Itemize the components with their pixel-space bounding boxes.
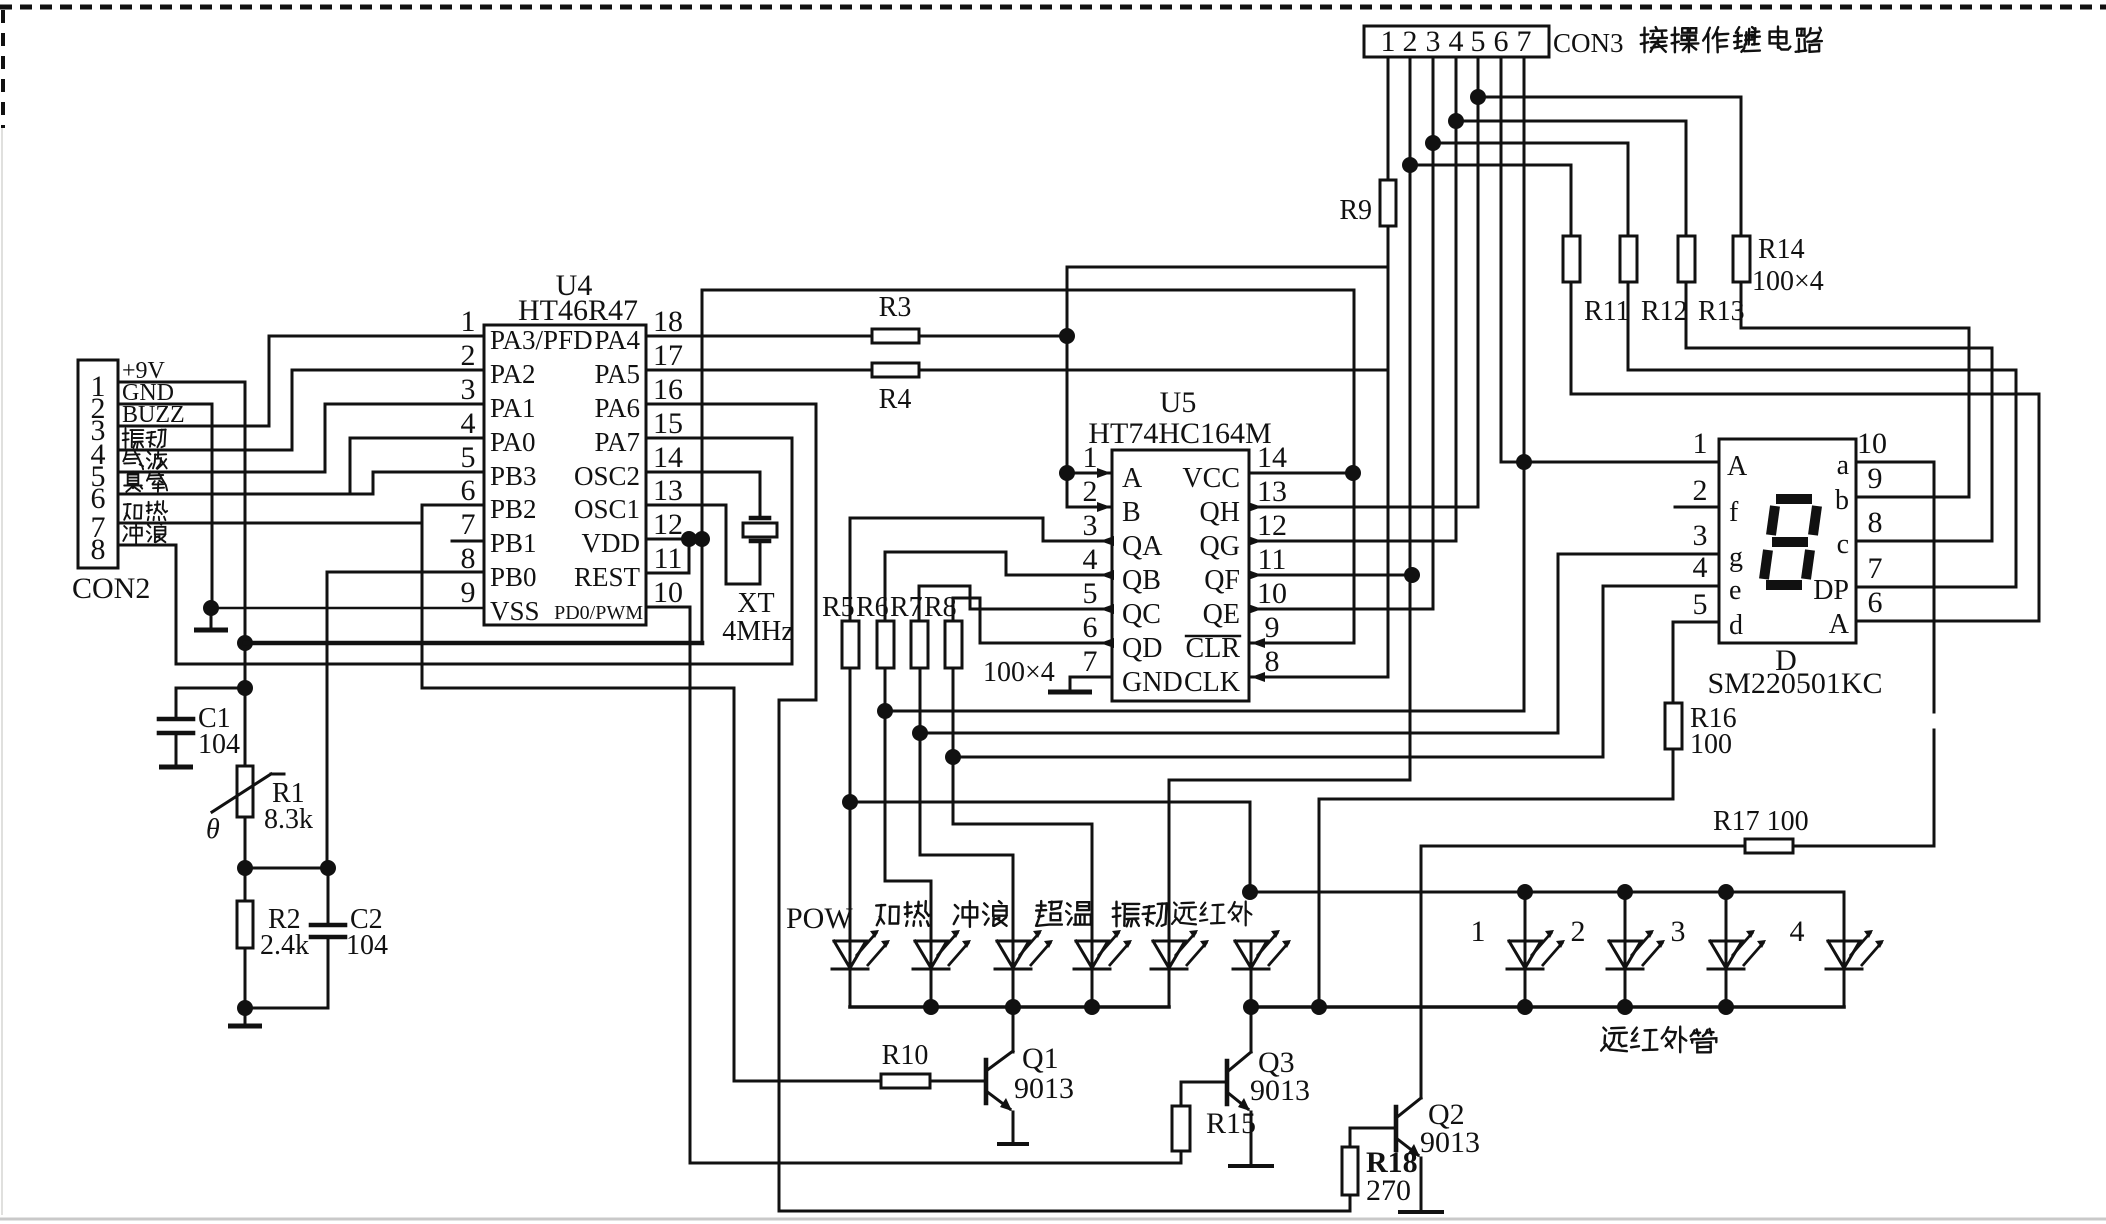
cathode bus of status LEDs [850,1005,1169,1009]
svg-text:3: 3 [1671,915,1686,948]
junction +9V/C1 [237,680,253,696]
wire 气波 to U4 PA1 [118,404,484,472]
svg-text:8.3k: 8.3k [264,804,313,835]
svg-text:QH: QH [1200,497,1240,528]
svg-text:14: 14 [653,441,683,474]
IR LED 3 cathode lead [1725,969,1728,1007]
svg-text:θ: θ [206,814,220,845]
ground symbol GND node [210,608,213,628]
resistor R9 [1380,180,1396,226]
wire 振动 LED cathode lead [1168,969,1171,1007]
wire U5 CLK from CON3-1 column [1249,676,1388,679]
wire 冲浪 LED cathode lead [1012,969,1015,1007]
junction R3 / A-B column [1059,328,1075,344]
wire display d to R16 [1673,622,1719,703]
svg-text:VSS: VSS [490,596,540,626]
svg-text:8: 8 [1265,645,1280,678]
svg-text:PA2: PA2 [490,359,536,389]
wire U5 QD to R8 [953,598,1112,643]
IR LED 1 anode lead [1524,892,1527,941]
IR LED 3 [1710,941,1742,968]
wire display e from shift line [953,586,1719,757]
wire U5 GND pin7 [1070,677,1112,690]
wire U5 pin1 A [1067,472,1112,475]
svg-text:1: 1 [461,305,476,338]
LED 加热 [915,941,947,968]
svg-text:CLK: CLK [1184,667,1240,698]
arrow out of U5 QB [1100,570,1114,580]
LED 远红外 [1235,941,1267,968]
wire R16 to cathode bus [1319,749,1673,1007]
arrow out of U5 QC [1100,604,1114,614]
IC U5 HT74HC164M body [1112,450,1249,701]
U5 CLR overline [1186,635,1240,637]
svg-text:10: 10 [653,576,683,609]
svg-text:1: 1 [1471,915,1486,948]
svg-text:17: 17 [653,339,683,372]
svg-text:QA: QA [1122,531,1163,562]
wire U4 REST pin11 tie to VDD [646,539,689,573]
svg-text:PD0/PWM: PD0/PWM [554,602,643,624]
svg-text:16: 16 [653,373,683,406]
IR LED 3 anode lead [1725,892,1728,941]
svg-text:2: 2 [1403,25,1418,58]
wire CON3-5 branch to R14 [1478,97,1741,236]
LED 振动 [1153,941,1185,968]
wire R8 column to 超温 LED [953,668,1092,941]
arrow out of U5 QA [1100,536,1114,546]
wire U4 OSC2 to crystal [646,472,760,518]
display pin2 f stub [1675,506,1719,509]
wire anode feed to IR rail [850,802,1250,892]
resistor R5 [842,621,859,668]
arrow into U5 CLR [1251,638,1265,648]
wire CON3-4 branch to R13 [1456,121,1686,236]
wire U5 CLR pin9 to supply column [1249,642,1354,645]
svg-text:4MHz: 4MHz [722,616,794,647]
wire CON3 pin1 through R9 down to CLK [1387,57,1390,180]
junction cathode rail / R16 return [1311,999,1327,1015]
svg-text:PA0: PA0 [490,427,536,457]
junction rail/远红外 anode [1242,884,1258,900]
svg-text:6: 6 [1083,611,1098,644]
svg-text:8: 8 [461,542,476,575]
wire 加热 LED cathode lead [930,969,933,1007]
svg-text:PA4: PA4 [594,325,640,355]
svg-text:10: 10 [1857,427,1887,460]
junction CON3-6/7 tie [1516,454,1532,470]
ground symbol C1 [159,765,193,770]
resistor R12 [1620,236,1637,282]
svg-text:QB: QB [1122,565,1161,596]
wire display g from shift line [920,554,1719,733]
junction IR rail 3 [1718,884,1734,900]
svg-text:CON3: CON3 [1553,28,1624,58]
junction CON3-4 / R13 [1448,113,1464,129]
wire R10 line from PB2 column [734,1080,881,1083]
svg-text:HT46R47: HT46R47 [518,294,638,327]
svg-text:9: 9 [1868,462,1883,495]
resistor R6 [877,621,894,668]
wire CON3 pin4 column [1455,57,1458,121]
wire Q2 emitter to ground [1420,1158,1423,1211]
svg-text:U5: U5 [1160,386,1197,419]
wire display a down to R17 [1856,462,1934,712]
wire R4 to CON3-1/CLK column [919,369,1388,372]
svg-text:PB3: PB3 [490,461,537,491]
wire R15 to Q3 base [1181,1081,1227,1084]
wire Q1 collector to bus [1012,1007,1015,1052]
CON2 signal label 冲浪 [123,523,142,543]
junction IR cathode rail 2 [1617,999,1633,1015]
junction 远红外 cathode/Q3 [1243,999,1259,1015]
wire U4 PA4 to R3 [646,335,872,338]
wire CON3 pin3 column [1432,57,1435,143]
wire 冲浪 to PA7 long line [118,438,792,664]
svg-text:12: 12 [1257,509,1287,542]
wire 臭氧 line [118,472,484,494]
arrow out of U5 QD [1100,638,1114,648]
svg-text:PB1: PB1 [490,528,537,558]
svg-text:11: 11 [654,542,683,575]
7-segment display D body [1719,439,1856,643]
display digit segments [1776,494,1812,504]
svg-text:5: 5 [1693,588,1708,621]
svg-text:9013: 9013 [1250,1074,1310,1107]
wire R3 to U5 A/B column [919,335,1067,338]
svg-text:104: 104 [346,930,388,961]
wire U4 PA6 to R18/Q2 base net [646,404,1350,1211]
wire R11 to display pin6 [1571,282,2039,621]
arrow into U5 A [1097,468,1111,478]
junction R5 column / IR feed line [842,794,858,810]
svg-text:100×4: 100×4 [1752,266,1824,297]
resistor R7 [911,621,928,668]
LED 冲浪 [997,941,1029,968]
junction VDD column [694,531,710,547]
resistor R10 [881,1074,930,1088]
svg-text:PA5: PA5 [594,359,640,389]
transistor Q2 [1394,1107,1399,1150]
svg-text:6: 6 [1868,586,1883,619]
wire 加热 line [118,522,422,525]
svg-text:R8: R8 [924,592,957,623]
svg-text:R3: R3 [879,292,912,323]
svg-text:b: b [1835,485,1849,516]
page top dashed border [0,5,2106,10]
svg-text:e: e [1729,575,1741,606]
svg-text:g: g [1729,542,1743,573]
svg-text:8: 8 [1868,506,1883,539]
svg-text:4: 4 [1449,25,1464,58]
svg-text:5: 5 [461,441,476,474]
svg-text:CON2: CON2 [72,572,150,605]
svg-text:1: 1 [1083,441,1098,474]
connector CON3 body [1364,26,1549,57]
svg-text:2: 2 [1571,915,1586,948]
wire U5 QF to CON3-2 column [1249,574,1412,577]
wire VDD rail to +9V [245,641,702,646]
svg-text:104: 104 [198,729,240,760]
wire Q3 emitter to ground [1250,1112,1253,1164]
resistor R18 [1342,1147,1358,1195]
wire R2 to ground [244,948,247,1008]
svg-text:9: 9 [1265,611,1280,644]
svg-text:5: 5 [1083,577,1098,610]
wire R14 to display pin b [1741,282,1969,497]
label 远红外 [1172,903,1196,925]
svg-text:SM220501KC: SM220501KC [1707,667,1882,700]
svg-text:3: 3 [461,373,476,406]
svg-text:R13: R13 [1698,296,1745,327]
svg-text:9: 9 [461,576,476,609]
arrow out of U5 QF [1248,570,1262,580]
svg-text:18: 18 [653,305,683,338]
resistor R15 [1180,1082,1183,1106]
svg-text:4: 4 [1693,551,1708,584]
junction REST/VDD [681,531,697,547]
wire U5 QA to R5 [850,518,1112,621]
svg-text:R7: R7 [890,592,923,623]
label 振动 [1113,902,1139,927]
svg-text:11: 11 [1258,543,1287,576]
wire U4 VDD pin12 [646,538,702,541]
wire R18 to Q2 base [1350,1128,1396,1147]
svg-text:100×4: 100×4 [983,657,1055,688]
svg-text:QD: QD [1122,633,1162,664]
IR LED 2 [1609,941,1641,968]
resistor R13 [1678,236,1695,282]
wire R7 column to 冲浪 LED [920,668,1013,941]
wire Q2 collector up to R17 [1420,846,1423,1098]
junction bus/超温 [1084,999,1100,1015]
svg-text:R6: R6 [856,592,889,623]
svg-text:3: 3 [1693,519,1708,552]
junction CON3-3 / R12 [1425,135,1441,151]
wire CON3 pin2 column [1169,57,1410,941]
resistor R2 [237,901,253,948]
LED POW [834,941,866,968]
wire U4 OSC1 to crystal [646,505,760,584]
svg-text:DP: DP [1813,575,1849,606]
svg-text:15: 15 [653,407,683,440]
svg-text:PA1: PA1 [490,393,536,423]
ground symbol U5 GND [1048,690,1092,695]
svg-text:PA3/PFD: PA3/PFD [490,325,593,355]
junction g line / R7 column [912,725,928,741]
svg-text:CLR: CLR [1186,633,1241,664]
IR LED 2 anode lead [1624,892,1627,941]
svg-text:14: 14 [1257,441,1287,474]
wire U5 VCC pin14 [1249,472,1354,475]
svg-text:6: 6 [1494,25,1509,58]
junction CON3-2 / R11 [1402,157,1418,173]
junction QF / CON3-2 column [1404,567,1420,583]
wire 振动 to U4 PA2 [118,370,484,450]
wire POW LED cathode lead [849,969,852,1007]
wire VSS to U4 pin9 [211,607,484,610]
svg-text:PB2: PB2 [490,494,537,524]
junction IR cathode rail 3 [1718,999,1734,1015]
svg-text:A: A [1122,463,1143,494]
junction +9V/VDD rail [237,635,253,651]
svg-text:d: d [1729,610,1743,641]
arrow into U5 B [1097,502,1111,512]
junction IR cathode rail 1 [1517,999,1533,1015]
ground symbol Q2 [1398,1210,1444,1214]
junction bus/冲浪/Q1 [1005,999,1021,1015]
svg-text:R10: R10 [882,1040,929,1071]
svg-text:2: 2 [1693,474,1708,507]
svg-text:9013: 9013 [1014,1072,1074,1105]
svg-text:7: 7 [461,508,476,541]
svg-text:PA7: PA7 [594,427,640,457]
wire R6 column to 加热 LED [885,668,931,941]
svg-text:7: 7 [1083,645,1098,678]
svg-text:PB0: PB0 [490,562,537,592]
svg-text:R11: R11 [1584,296,1630,327]
svg-text:3: 3 [1083,509,1098,542]
svg-text:100: 100 [1690,729,1732,760]
wire U5 QG to CON3-4 column [1249,57,1456,541]
svg-text:a: a [1837,450,1850,481]
wire CON3 pin5 column [1477,57,1480,97]
svg-text:A: A [1829,609,1850,640]
svg-text:4: 4 [1790,915,1805,948]
svg-text:13: 13 [1257,475,1287,508]
junction divider/R2 [237,860,253,876]
label 超温 [1036,901,1062,926]
wire CON3 pin6 to display common A [1501,57,1719,462]
svg-text:QE: QE [1203,599,1240,630]
svg-text:5: 5 [1471,25,1486,58]
junction GND node [203,600,219,616]
wire R5 column to POW LED anode [849,668,852,941]
IR anode rail [1250,891,1844,894]
junction e line / R8 column [945,749,961,765]
wire CON3-1 key line to U5 A/B [1067,267,1388,507]
IC U4 HT46R47 body [484,325,646,625]
IR LED 1 [1509,941,1541,968]
svg-text:1: 1 [1381,25,1396,58]
svg-text:R15: R15 [1206,1107,1256,1140]
svg-text:270: 270 [1366,1174,1411,1207]
wire divider to C2 [245,867,328,870]
label 远红外管 [1601,1028,1627,1052]
wire U4 PB2 column down to Q1 base net [422,505,734,1081]
thermistor R1 [237,766,253,817]
wire GND from CON2 pin2 [118,404,212,608]
svg-text:6: 6 [461,474,476,507]
CON2 signal label 臭氧 [124,471,142,491]
CON2 signal label 气波 [123,450,143,469]
svg-text:8: 8 [91,533,106,566]
wire U5 QB to R6 [885,552,1112,621]
resistor R16 [1665,703,1682,749]
svg-text:R12: R12 [1641,296,1688,327]
wire U4 PB0 to thermistor divider [327,572,484,868]
junction bus/加热 [923,999,939,1015]
svg-text:2: 2 [461,339,476,372]
wire R12 to display DP [1628,282,2016,587]
wire BUZZ to U4 PA3/PFD [118,336,484,426]
junction IR rail 1 [1517,884,1533,900]
junction R2/C2 ground [237,1000,253,1016]
junction divider/C2 [320,860,336,876]
wire 远红外 cathode to Q3 collector [1250,969,1253,1052]
label 冲浪 [954,901,978,927]
page left faint rule [1,128,3,1215]
transistor Q3 [1225,1061,1230,1104]
stub U4 PB1 n.c. [452,540,484,543]
svg-text:OSC1: OSC1 [574,494,640,524]
wire Q1 emitter to ground [1012,1112,1015,1142]
svg-text:R17 100: R17 100 [1713,806,1809,837]
wire Q2 collector to R17 [1421,845,1745,848]
wire U5 QC to R7 [919,586,1112,621]
svg-text:2.4k: 2.4k [260,930,309,961]
IR LED 2 cathode lead [1624,969,1627,1007]
arrow out of U5 QH [1248,502,1262,512]
svg-text:A: A [1727,451,1748,482]
svg-text:R4: R4 [879,384,912,415]
wire CON3 pin7 column to key return line [885,57,1524,711]
wire R13 to display pin c [1686,282,1992,541]
svg-text:7: 7 [1868,552,1883,585]
svg-text:QF: QF [1204,565,1240,596]
IR LED 4 cathode lead [1843,969,1846,1007]
transistor Q1 [984,1060,989,1103]
svg-text:B: B [1122,497,1141,528]
IR LED 4 anode lead [1843,892,1846,941]
svg-text:XT: XT [737,588,774,619]
resistor R14 [1733,236,1750,282]
cathode rail of IR bank [1251,1005,1844,1009]
wire 超温 LED cathode lead [1091,969,1094,1007]
arrow out of U5 QG [1248,536,1262,546]
wire R1 to divider node [244,817,247,901]
wire +9V from CON2 pin1 [118,382,245,766]
wire CON3-2 branch to R11 [1410,165,1571,236]
junction IR rail 2 [1617,884,1633,900]
crystal XT body [743,523,777,537]
wire U5 QE to CON3-3 column [1249,57,1433,609]
ground symbol Q3 [1228,1164,1274,1168]
crystal XT plates [751,516,769,521]
arrow out of U5 QE [1248,604,1262,614]
svg-text:POW: POW [786,902,853,935]
wire U5 QH to CON3-5 column [1249,57,1478,507]
CON2 signal label 振动 [123,428,144,447]
svg-text:VDD: VDD [582,528,641,558]
svg-text:Q1: Q1 [1022,1042,1059,1075]
wire U4 PA0 drop to 臭氧 line [350,438,484,494]
svg-text:GND: GND [1122,667,1183,698]
svg-text:VCC: VCC [1182,463,1240,494]
arrow into U5 CLK [1251,672,1265,682]
wire VDD column up to U5 supply run [702,290,1354,643]
page left dashed border fragment [1,10,5,128]
svg-text:QC: QC [1122,599,1161,630]
capacitor C1 [176,688,245,719]
ground symbol Q1 [997,1142,1029,1146]
connector CON2 body [78,360,118,568]
CON2 signal label 加热 [124,504,142,520]
svg-text:OSC2: OSC2 [574,461,640,491]
resistor R4 [872,363,919,377]
svg-text:BUZZ: BUZZ [122,402,185,428]
junction A/B tie [1059,465,1075,481]
